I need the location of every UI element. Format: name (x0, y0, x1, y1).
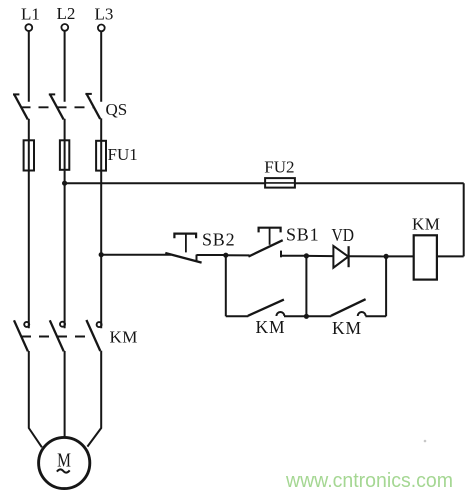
wire fuse FU1c to KM main pole 3 (100, 171, 102, 329)
wire SB2 to junction A (197, 254, 226, 256)
svg-text:FU1: FU1 (108, 145, 138, 164)
switch QS linkage dashed line (21, 106, 95, 108)
pushbutton SB1 cap (259, 228, 281, 233)
wire L2 junction to fuse FU2 (65, 182, 266, 184)
pushbutton SB2 stem (185, 234, 187, 253)
pushbutton SB2 right post (196, 255, 198, 262)
wire right rail to KM coil (437, 255, 464, 257)
wire junction B down to aux branch (305, 256, 307, 316)
wire fuse FU2 to right rail (295, 182, 464, 184)
junction D (aux branch centre) (304, 314, 309, 319)
pushbutton SB1 lever (NO) (248, 240, 282, 256)
svg-text:KM: KM (412, 215, 440, 234)
pushbutton SB1 stem (269, 228, 271, 245)
contactor KM main pole 1 lever (14, 320, 28, 351)
svg-text:KM: KM (256, 317, 286, 337)
junction on L3 feeding control line (99, 252, 104, 257)
svg-text:M: M (57, 450, 71, 472)
wire right rail down (463, 183, 465, 256)
svg-text:L3: L3 (95, 5, 114, 24)
contactor KM aux contact 2 lever (NO) (331, 299, 366, 316)
wire L3 terminal to QS pole 3 (100, 32, 102, 102)
wire junction C down to aux branch (385, 256, 387, 316)
switch QS pole 3 blade (86, 94, 100, 119)
junction A (after SB2) (223, 253, 228, 258)
svg-text:L1: L1 (21, 4, 40, 23)
motor M circle (39, 437, 90, 488)
terminal L3 (98, 25, 105, 32)
contactor KM main pole 2 lever (50, 320, 64, 351)
fuse FU1 pole 2 (60, 140, 69, 170)
wire QS pole 2 to fuse FU1b (64, 119, 66, 141)
svg-text:L2: L2 (57, 4, 76, 23)
contactor KM aux contact 1 fixed contact arc (276, 312, 284, 316)
wire L3 junction to button SB2 (101, 254, 171, 256)
contactor KM main pole 2 fixed ring (60, 322, 65, 327)
contactor KM aux contact 1 lever (NO) (248, 300, 284, 316)
wire junction A to button SB1 (226, 254, 250, 256)
wire L1 terminal to QS pole 1 (28, 31, 30, 102)
switch QS pole 1 blade tick (13, 93, 19, 95)
wire QS pole 1 to fuse FU1a (28, 119, 30, 141)
svg-text:QS: QS (106, 100, 128, 119)
contactor KM main pole 1 fixed ring (24, 322, 29, 327)
fuse FU2 (265, 178, 295, 188)
contactor KM main linkage dashed line (21, 336, 94, 338)
wire junction C to KM coil (386, 255, 414, 257)
wire KM main pole 3 to motor (87, 351, 101, 447)
fuse FU1 pole 1 (24, 140, 34, 170)
switch QS pole 1 blade (14, 94, 28, 119)
svg-text:www.cntronics.com: www.cntronics.com (285, 469, 453, 492)
contactor KM main pole 3 lever (86, 320, 100, 351)
pushbutton SB2 lever (NC) (165, 253, 201, 263)
diode VD (333, 246, 348, 268)
svg-text:SB2: SB2 (202, 230, 235, 250)
switch QS pole 2 blade tick (49, 93, 55, 95)
svg-text:FU2: FU2 (264, 158, 294, 177)
motor AC tilde (57, 469, 70, 472)
junction B (after SB1) (304, 253, 309, 258)
wire L2 terminal to QS pole 2 (64, 31, 66, 102)
wire junction A down to aux branch (225, 255, 227, 316)
svg-text:KM: KM (332, 318, 362, 338)
wire KM aux contact 2 to junction C branch (365, 315, 386, 317)
junction C (before KM coil) (384, 254, 389, 259)
wire junction B to diode VD (306, 255, 333, 257)
svg-text:SB1: SB1 (286, 225, 319, 245)
switch QS pole 2 blade (50, 94, 64, 119)
faint speck (424, 440, 427, 443)
junction on L2 feeding control circuit (62, 181, 67, 186)
svg-text:KM: KM (110, 328, 138, 347)
wire fuse FU1b to KM main pole 2 (64, 171, 66, 329)
terminal L1 (25, 24, 32, 31)
wire SB1 to junction B (281, 255, 306, 257)
wire KM main pole 2 to motor (64, 351, 66, 437)
wire fuse FU1a to KM main pole 1 (28, 171, 30, 329)
wire QS pole 3 to fuse FU1c (100, 118, 102, 140)
wire junction D to KM aux contact 2 (306, 315, 331, 317)
pushbutton SB1 right post (280, 251, 282, 258)
fuse FU1 pole 3 (96, 141, 106, 171)
terminal L2 (61, 24, 68, 31)
contactor KM aux contact 2 fixed contact arc (358, 312, 366, 316)
wire KM aux contact 1 to junction D (284, 315, 306, 317)
wire diode VD to junction C (349, 255, 387, 257)
contactor KM main pole 3 fixed ring (97, 322, 102, 327)
switch QS pole 3 blade tick (85, 93, 91, 95)
pushbutton SB2 cap (174, 234, 196, 239)
wire aux branch left to KM aux contact 1 (226, 315, 249, 317)
wire KM main pole 1 to motor (29, 351, 42, 447)
contactor coil KM (414, 235, 437, 279)
svg-text:VD: VD (332, 225, 355, 245)
